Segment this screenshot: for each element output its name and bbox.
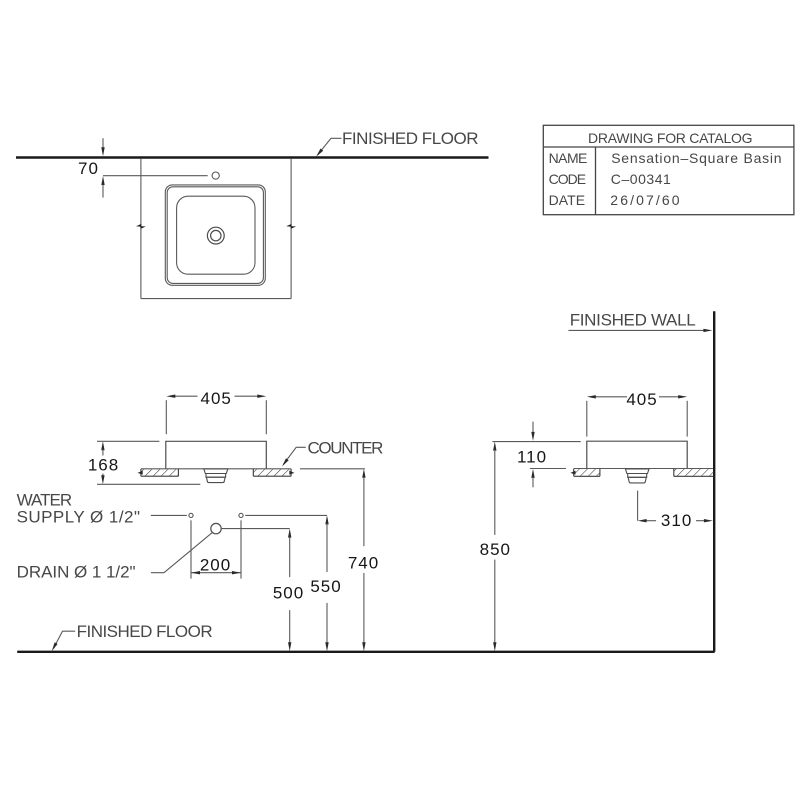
dimension 405 (left): extension lines (165, 400, 167, 434)
dimension 70: upper segment + down arrow (102, 138, 104, 148)
svg-text:110: 110 (517, 447, 547, 466)
drain inner circle (plan) (211, 230, 221, 240)
counter leader (284, 447, 306, 464)
drain flange (side view) (625, 469, 649, 474)
svg-text:FINISHED FLOOR: FINISHED FLOOR (77, 622, 213, 641)
node: counter outline (plan view) right edge with break (290, 159, 292, 225)
svg-text:405: 405 (201, 389, 232, 408)
dimension 110: top extension line (492, 441, 580, 443)
svg-text:500: 500 (273, 584, 304, 603)
faucet hole circle (plan) (212, 172, 219, 179)
svg-text:DRAIN Ø 1 1/2": DRAIN Ø 1 1/2" (17, 562, 136, 581)
dimension 850: line segments + arrows (493, 442, 496, 451)
water supply right circle (239, 513, 243, 517)
dimension 500: line segments + arrows (288, 529, 291, 538)
drain circle (elevation) (211, 523, 221, 533)
water supply leader line left (151, 514, 187, 516)
basin inner rim line (plan) (167, 187, 263, 284)
drain level line (222, 528, 290, 530)
title block header line (543, 146, 794, 148)
basin body (left elevation) (166, 441, 266, 469)
svg-text:310: 310 (661, 511, 692, 530)
dimension 740: extension line (300, 468, 365, 470)
wire: thick finished-floor line (plan view) (16, 156, 489, 158)
dimension 168: extension lines (97, 440, 159, 442)
dimension 70: lower segment + up arrow (102, 185, 104, 198)
counter left hatched section (side view) (574, 469, 600, 476)
counter left hatched section (left elevation) (141, 469, 179, 476)
node: counter outline (plan view) left edge with break (140, 159, 142, 225)
title block divider (595, 147, 597, 215)
dimension 110: bottom extension line (530, 468, 566, 470)
svg-text:168: 168 (88, 456, 119, 475)
svg-text:NAME: NAME (549, 150, 588, 166)
leader for FINISHED FLOOR (top) (318, 138, 342, 154)
svg-text:SUPPLY Ø 1/2": SUPPLY Ø 1/2" (17, 507, 140, 526)
svg-text:200: 200 (200, 556, 231, 575)
drain cup (left elevation) (206, 477, 225, 482)
wire: counter outline (plan view) bottom edge (141, 298, 291, 300)
svg-text:850: 850 (480, 540, 511, 559)
svg-text:DRAWING FOR CATALOG: DRAWING FOR CATALOG (588, 130, 753, 146)
basin bowl (plan) (177, 196, 255, 274)
counter right hatched section (left elevation) (253, 469, 291, 476)
svg-text:DATE: DATE (549, 192, 586, 208)
svg-text:COUNTER: COUNTER (308, 439, 384, 458)
svg-text:26/07/60: 26/07/60 (610, 192, 680, 208)
wall leader with arrow (568, 329, 704, 331)
dimension 200: line + arrows (191, 572, 241, 574)
basin body (side view) (587, 441, 687, 468)
svg-text:740: 740 (348, 553, 379, 572)
basin outer rim (plan) (165, 185, 265, 285)
drain band (side view) (628, 474, 647, 478)
water supply line right (245, 514, 327, 516)
title block border (543, 125, 794, 214)
svg-text:Sensation–Square Basin: Sensation–Square Basin (611, 150, 781, 166)
dimension 405 (side): arrows (587, 395, 596, 398)
dimension 110: bottom segment + up arrow (531, 469, 534, 478)
svg-text:70: 70 (78, 159, 99, 178)
drain cup (side view) (628, 477, 646, 483)
dimension 200: extension lines (190, 520, 192, 578)
wire: thick finished wall line (713, 311, 715, 652)
dimension 310: line segments + arrows (646, 520, 656, 522)
drain band (left elevation) (206, 474, 226, 478)
counter top line (left elevation) (141, 468, 291, 470)
dimension 310: extension line below drain (637, 491, 639, 521)
dimension 110: top segment + down arrow (532, 422, 534, 433)
svg-text:405: 405 (626, 390, 657, 409)
dimension 168: line segments + arrows (101, 441, 104, 450)
dimension 550: line segments + arrows (325, 515, 328, 524)
drain leader line (151, 532, 213, 572)
dimension 405 (left): line segments (175, 395, 198, 397)
svg-text:550: 550 (310, 577, 341, 596)
counter right hatched section (side view) (674, 469, 714, 476)
dimension 740: line segments + arrows (362, 469, 365, 478)
svg-text:FINISHED FLOOR: FINISHED FLOOR (342, 129, 479, 148)
drain outer circle (plan) (207, 227, 224, 244)
wire: thick finished floor line (bottom) (17, 651, 714, 653)
dimension 405 (side): line segments (595, 396, 627, 398)
svg-text:C–00341: C–00341 (611, 171, 671, 187)
dimension 70: extension line (103, 175, 208, 177)
dimension 405 (side): extension lines (586, 401, 588, 437)
svg-text:FINISHED WALL: FINISHED WALL (570, 310, 696, 329)
bottom floor leader (54, 631, 76, 648)
water supply left circle (189, 513, 193, 517)
dimension 405 (left): arrows (166, 395, 175, 398)
drain flange (left elevation) (204, 469, 228, 474)
counter top line (side view) (574, 468, 713, 470)
svg-text:CODE: CODE (549, 171, 587, 187)
